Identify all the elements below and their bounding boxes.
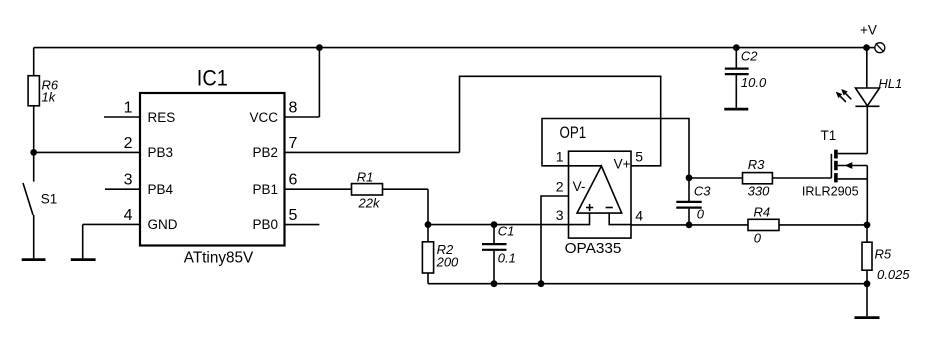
power terminal +V	[867, 43, 885, 53]
wire: op-amp pin 5 (V+) route to PB2	[460, 76, 661, 166]
node: top rail / +V terminal junction	[863, 44, 870, 51]
svg-text:1: 1	[124, 100, 133, 117]
resistor R2	[422, 225, 433, 284]
svg-text:2: 2	[124, 135, 133, 152]
svg-text:5: 5	[289, 207, 298, 224]
wire: PB3 net (node to IC pin 2)	[34, 151, 140, 153]
resistor R5	[862, 225, 872, 284]
svg-text:R3: R3	[748, 157, 765, 172]
capacitor C2	[725, 48, 749, 108]
svg-text:RES: RES	[148, 110, 176, 125]
svg-text:ATtiny85V: ATtiny85V	[184, 250, 254, 267]
svg-text:PB3: PB3	[148, 145, 174, 160]
svg-text:2: 2	[556, 178, 564, 194]
svg-text:4: 4	[124, 207, 133, 224]
svg-text:GND: GND	[148, 217, 178, 232]
wire: bottom rail	[428, 283, 867, 285]
svg-text:C3: C3	[694, 183, 711, 198]
svg-text:1k: 1k	[42, 90, 57, 105]
pin 7 PB2 wire	[285, 151, 460, 153]
ground (below GND pin)	[71, 258, 96, 261]
IC U1 box	[140, 93, 285, 246]
resistor R6	[28, 48, 39, 153]
svg-text:0.025: 0.025	[877, 267, 910, 282]
svg-text:+V: +V	[860, 23, 877, 38]
svg-text:10.0: 10.0	[741, 75, 767, 90]
svg-text:4: 4	[635, 207, 643, 223]
resistor R3	[689, 173, 831, 184]
pin 1 RES wire	[104, 116, 140, 118]
node: V- wire / bottom rail junction	[538, 280, 545, 287]
wire: op-amp pin 4 to C3/R4 node	[631, 224, 689, 226]
node: C1 top junction	[491, 221, 498, 228]
resistor R4	[689, 219, 867, 230]
node: R4 / T1 source / R5 junction	[864, 222, 871, 229]
node: C3 bottom / pin4 / R4 junction	[686, 222, 693, 229]
node: top rail / C2 junction	[733, 44, 740, 51]
svg-text:5: 5	[635, 149, 643, 165]
svg-text:R5: R5	[875, 247, 892, 262]
svg-text:PB0: PB0	[252, 217, 278, 232]
node: top rail / VCC junction	[316, 44, 323, 51]
wire: node to op-amp pin 3	[428, 224, 569, 226]
node: output/R3/C3 junction	[686, 174, 693, 181]
svg-text:0.1: 0.1	[498, 251, 516, 266]
svg-text:200: 200	[436, 254, 459, 269]
svg-text:HL1: HL1	[878, 76, 902, 91]
svg-text:C2: C2	[741, 49, 758, 64]
ground (below R5)	[855, 316, 880, 319]
transistor T1 IRLR2905	[831, 150, 867, 225]
wire: +V top rail	[34, 47, 867, 49]
svg-text:3: 3	[124, 172, 133, 189]
svg-text:OP1: OP1	[560, 123, 587, 142]
svg-text:IRLR2905: IRLR2905	[802, 184, 859, 199]
svg-text:T1: T1	[821, 128, 837, 143]
wire: op-amp output pin 1 route to R3/C3 node	[542, 119, 689, 178]
LED HL1	[836, 88, 880, 106]
svg-text:PB2: PB2	[252, 145, 278, 160]
svg-text:0: 0	[697, 207, 705, 222]
svg-text:PB1: PB1	[252, 182, 278, 197]
node: C1 bottom junction	[491, 280, 498, 287]
op-amp OP1 OPA335	[569, 151, 632, 238]
pin 6 PB1 wire	[285, 188, 352, 190]
svg-text:V+: V+	[614, 157, 631, 172]
wire: op-amp pin 2 (V-) to bottom rail	[541, 196, 569, 284]
svg-text:R1: R1	[357, 169, 374, 184]
wire: HL1 cathode to T1 drain	[866, 106, 868, 153]
switch S1	[23, 152, 34, 258]
svg-text:IC1: IC1	[197, 65, 228, 90]
svg-text:0: 0	[754, 230, 762, 245]
pin 4 GND wire	[83, 224, 140, 258]
svg-text:7: 7	[289, 135, 298, 152]
capacitor C3	[676, 178, 701, 225]
svg-text:R4: R4	[753, 205, 770, 220]
svg-text:C1: C1	[498, 224, 515, 239]
capacitor C1	[482, 225, 507, 284]
wire: +V to HL1 anode	[866, 48, 868, 88]
svg-text:VCC: VCC	[249, 110, 278, 125]
ground (below S1)	[22, 258, 46, 261]
ground (below C2)	[724, 108, 748, 111]
node: R5 bottom / rail junction	[864, 280, 871, 287]
node: R6 / PB3 / S1 junction	[30, 149, 37, 156]
wire: R5 node to ground	[866, 284, 868, 316]
pin 3 PB4 wire	[105, 188, 140, 190]
svg-text:330: 330	[748, 184, 770, 199]
svg-text:OPA335: OPA335	[565, 240, 622, 257]
svg-text:S1: S1	[41, 191, 58, 206]
pin 8 VCC wire	[285, 48, 320, 117]
svg-text:V-: V-	[573, 179, 586, 194]
resistor R1	[352, 184, 429, 225]
svg-text:8: 8	[289, 100, 298, 117]
svg-text:PB4: PB4	[148, 182, 174, 197]
node: R1/R2/IN+ junction	[425, 221, 432, 228]
svg-text:3: 3	[556, 207, 564, 223]
svg-text:22k: 22k	[358, 196, 381, 211]
svg-text:1: 1	[556, 149, 564, 165]
pin 5 PB0 stub wire	[285, 224, 320, 226]
svg-text:6: 6	[289, 172, 298, 189]
